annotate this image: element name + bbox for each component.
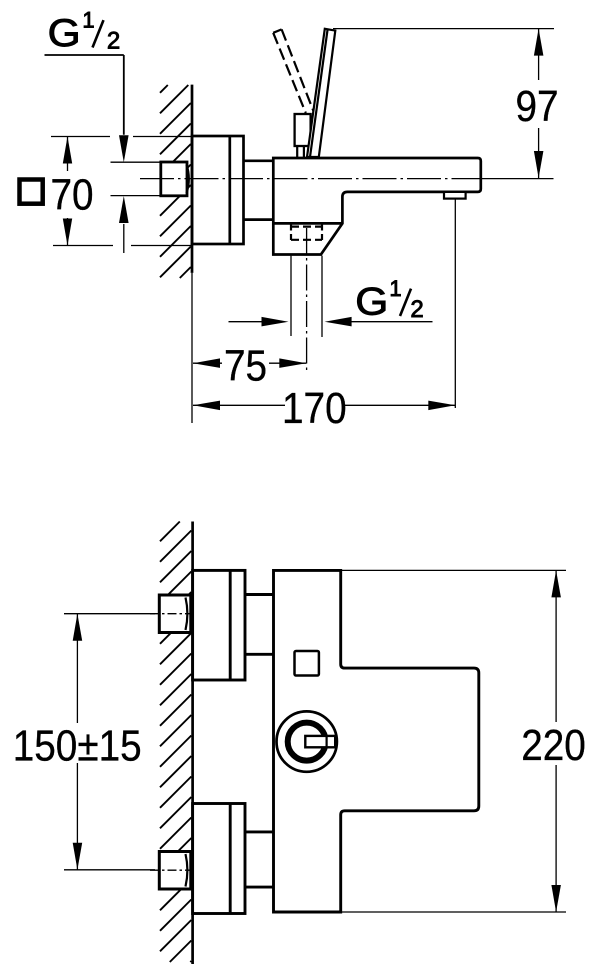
lever handle (solid, upright position) (307, 29, 335, 157)
body bottom edge (273, 222, 342, 225)
nipple centerline (306, 228, 308, 373)
lower union nut (front view) (159, 852, 191, 890)
dimension 75 (wall to connection center) (193, 340, 306, 390)
lower union centerline (150, 869, 193, 871)
svg-text:2: 2 (107, 28, 120, 55)
escutcheon / wall flange (side view) (192, 136, 244, 244)
svg-text:1: 1 (82, 7, 94, 32)
svg-text:1: 1 (389, 276, 401, 301)
svg-text:G: G (355, 279, 388, 323)
faucet body and spout outline (side view) (273, 158, 481, 255)
wall union fitting G1/2 (side view) (161, 162, 189, 196)
svg-text:150±15: 150±15 (13, 720, 142, 770)
knob handle tab (305, 736, 335, 747)
faucet body outline (front view) (274, 570, 479, 912)
wall face line (side view) (191, 85, 194, 273)
horizontal centerline (faucet axis) (140, 178, 554, 180)
dimension 150±15 (union spacing) (13, 614, 155, 870)
svg-text:220: 220 (521, 720, 586, 770)
nipple thread extension lines (291, 256, 322, 337)
wall extension line down to 170 dimension (191, 273, 193, 423)
dimension 170 (wall to aerator center) (193, 383, 455, 433)
wall hatch (front view) (160, 522, 191, 963)
svg-text:75: 75 (224, 340, 267, 390)
G 1/2 lower label (connection thread) (229, 276, 433, 327)
dimension 97 (handle height above spout axis) (333, 29, 559, 178)
diverter button (front view) (295, 651, 319, 676)
aerator axis extension line (454, 199, 456, 408)
upper union centerline (150, 613, 193, 615)
lever handle (dashed, tilted alternate position) (273, 29, 313, 113)
connecting neck (side view) (244, 161, 274, 220)
control knob outer circle (277, 711, 337, 771)
dimension 70 (escutcheon square size) (20, 137, 192, 246)
cartridge pivot block (295, 114, 311, 157)
svg-text:70: 70 (50, 169, 93, 219)
lower escutcheon (front view) (193, 804, 245, 914)
svg-text:2: 2 (410, 296, 423, 323)
upper escutcheon (front view) (193, 570, 245, 680)
aerator / mousseur on spout underside (444, 192, 466, 199)
upper union nut (front view) (159, 595, 191, 633)
wall face line (front view) (191, 522, 194, 965)
lower neck (245, 832, 274, 887)
svg-text:170: 170 (282, 383, 347, 433)
G 1/2 top label with leader to wall fitting (45, 7, 129, 253)
control knob inner ring (288, 723, 326, 761)
dimension 220 (body height) (341, 570, 586, 912)
wall hatch (side view) (160, 85, 191, 278)
hidden G1/2 connection nipple (dashed) (291, 225, 322, 242)
svg-text:97: 97 (515, 81, 558, 131)
svg-text:G: G (48, 11, 81, 55)
upper neck (245, 595, 274, 655)
fitting thread extension lines (111, 162, 161, 195)
